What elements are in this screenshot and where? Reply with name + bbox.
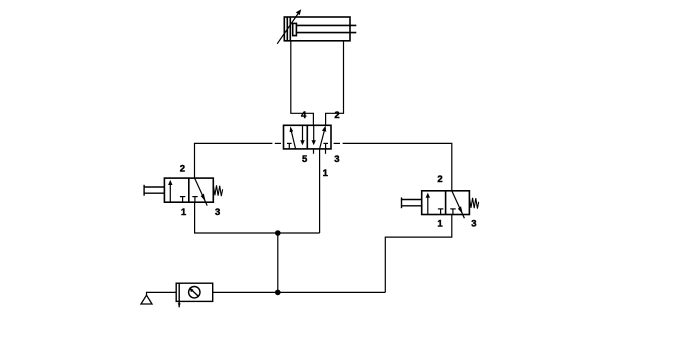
junction node B	[275, 290, 281, 296]
service unit regulator arrow tip	[189, 288, 193, 293]
compressed air source	[141, 295, 152, 304]
valve V1 exhaust stub port 5	[313, 149, 315, 154]
wire source to service unit	[147, 292, 177, 295]
valve V2 push button actuator	[144, 185, 164, 196]
svg-text:1: 1	[181, 207, 187, 218]
air service unit (filter regulator, simplified)	[176, 283, 213, 307]
wire V1 port 1 down to supply node	[319, 149, 321, 233]
svg-text:2: 2	[437, 174, 442, 185]
pilot dash right of valve V1	[334, 142, 340, 144]
junction node A	[275, 230, 281, 236]
valve V2 left box blocked port 3	[180, 197, 185, 203]
valve V3 right box blocked port 1	[450, 209, 455, 215]
pilot dash left of valve V1	[275, 142, 281, 144]
wire node A to node B	[277, 233, 279, 292]
valve V2 right box blocked port 1	[192, 197, 197, 203]
wire left valve port 2 to V1 left pilot	[195, 143, 273, 178]
valve V3 left box blocked port 3	[438, 209, 443, 215]
valve V3 left box flow 1-2	[426, 193, 430, 215]
wire cylinder right port to 5/2 valve port 2	[326, 41, 344, 126]
valve V1 5/2-way pilot operated	[284, 125, 332, 149]
valve V2 right box flow 2-3 exhaust	[195, 178, 208, 206]
valve V2 left box flow 1-2	[168, 180, 172, 202]
valve V3 return spring	[469, 197, 478, 208]
wire supply rail from service unit to riser	[213, 291, 386, 293]
svg-text:1: 1	[437, 219, 443, 230]
svg-text:1: 1	[323, 168, 329, 179]
valve V1 right box flow 4-5	[312, 125, 316, 145]
svg-text:3: 3	[334, 154, 339, 165]
valve V1 left box blocked port 5	[287, 143, 292, 149]
valve V1 left box flow 2-3	[300, 125, 304, 145]
cushioning adjust arrow	[277, 9, 301, 44]
wire valve V2 port 1 to supply node	[195, 202, 320, 233]
wire cylinder left port to 5/2 valve port 4	[291, 41, 314, 126]
cylinder (double-acting with adjustable cushioning)	[284, 17, 356, 41]
valve V1 right box blocked port 3	[323, 143, 328, 149]
svg-text:3: 3	[215, 207, 220, 218]
wire riser to valve V3 port 1	[385, 215, 452, 293]
svg-text:2: 2	[180, 164, 185, 175]
valve V2 3/2-way push button, spring return	[164, 178, 213, 202]
valve V2 return spring	[213, 185, 222, 196]
valve V1 exhaust stub port 3	[325, 149, 327, 154]
svg-text:3: 3	[471, 219, 476, 230]
svg-text:5: 5	[302, 154, 308, 165]
valve V3 3/2-way push button, spring return	[422, 191, 470, 215]
svg-text:4: 4	[301, 110, 307, 121]
wire right valve port 2 to V1 right pilot	[343, 143, 452, 190]
svg-text:2: 2	[334, 110, 339, 121]
valve V1 right box flow 1-2	[320, 126, 327, 149]
valve V3 right box flow 2-3 exhaust	[452, 191, 465, 219]
valve V3 push button actuator	[402, 197, 422, 208]
valve V1 left box flow 1-4	[290, 126, 296, 149]
service unit drain arrow tip	[178, 303, 181, 307]
